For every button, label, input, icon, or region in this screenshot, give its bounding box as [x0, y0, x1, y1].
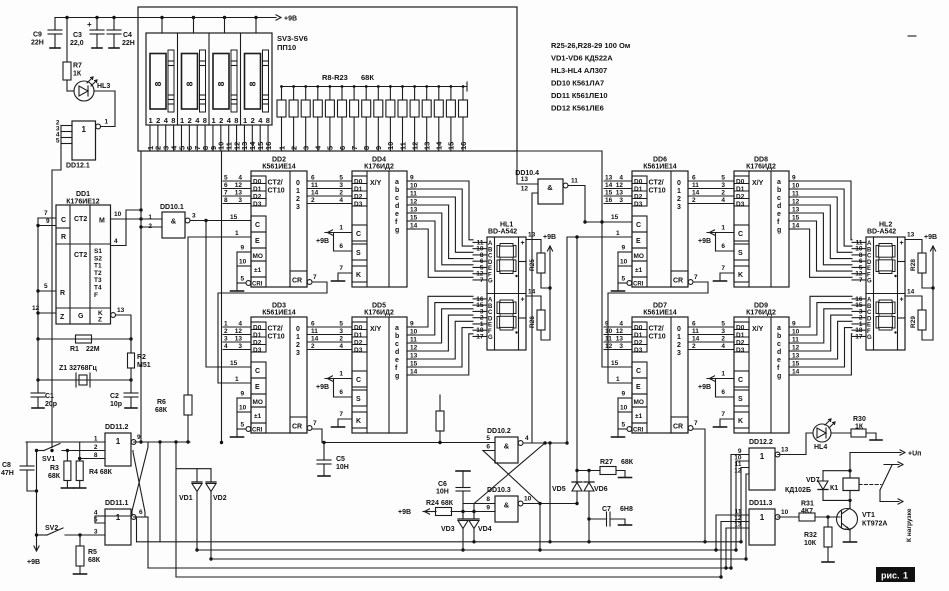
svg-text:HL3-HL4 АЛ307: HL3-HL4 АЛ307: [551, 66, 607, 75]
resistor R3: [66, 449, 69, 452]
svg-text:1: 1: [94, 436, 98, 443]
svg-text:D1: D1: [354, 186, 363, 193]
svg-text:C: C: [738, 377, 743, 384]
svg-text:B: B: [488, 247, 493, 253]
svg-text:11: 11: [692, 182, 699, 189]
svg-text:7: 7: [313, 274, 317, 281]
svg-text:К561ИЕ14: К561ИЕ14: [262, 310, 296, 317]
wire segment bundle: [797, 321, 852, 359]
svg-text:22Н: 22Н: [122, 40, 135, 47]
svg-text:5: 5: [56, 138, 60, 145]
svg-text:22Н: 22Н: [31, 40, 44, 47]
svg-text:0: 0: [677, 326, 681, 333]
resistor R7: [65, 16, 68, 19]
svg-text:VT1: VT1: [862, 512, 875, 519]
wire MO/±1/CRI tie: [236, 252, 238, 291]
diode VD2: [210, 469, 212, 482]
svg-text:R27: R27: [600, 459, 613, 466]
svg-text:CT2: CT2: [74, 216, 87, 223]
svg-text:КТ972А: КТ972А: [862, 521, 887, 528]
svg-text:D0: D0: [634, 179, 643, 186]
resistor R31: [799, 513, 815, 521]
svg-text:13: 13: [605, 175, 613, 182]
svg-text:2: 2: [677, 342, 681, 349]
svg-text:К176ИД2: К176ИД2: [746, 164, 776, 171]
wire latch cross A: [105, 442, 148, 516]
wire DD10.3 output: [523, 503, 577, 505]
wire +9В HL2: [932, 246, 934, 340]
svg-text:C: C: [61, 217, 66, 224]
wire latch cross 2: [483, 451, 540, 504]
svg-text:F: F: [867, 329, 871, 335]
svg-text:68К: 68К: [88, 557, 101, 564]
svg-text:9: 9: [137, 434, 141, 441]
svg-text:22М: 22М: [86, 346, 100, 353]
module box SV3-SV6: [138, 7, 517, 151]
svg-text:К176ИЕ12: К176ИЕ12: [66, 199, 100, 206]
svg-text:рис.: рис.: [881, 571, 900, 581]
svg-text:10: 10: [605, 328, 613, 335]
counter DD6 K561ИЕ14: [632, 171, 688, 287]
wire DD1 pin 4: [111, 210, 142, 246]
svg-text:a: a: [395, 179, 399, 186]
svg-text:1: 1: [677, 334, 681, 341]
diode VD6: [588, 471, 590, 483]
svg-text:8: 8: [216, 81, 226, 86]
svg-text:1: 1: [82, 125, 87, 134]
svg-text:A: A: [488, 298, 493, 304]
gate DD10.4 (&): [538, 179, 563, 204]
svg-text:C8: C8: [2, 462, 11, 469]
svg-text:8: 8: [94, 452, 98, 459]
svg-text:D2: D2: [354, 340, 363, 347]
svg-text:3: 3: [238, 343, 242, 350]
svg-text:3: 3: [296, 204, 300, 211]
svg-text:5: 5: [44, 283, 48, 290]
svg-text:12: 12: [734, 468, 742, 475]
svg-text:G: G: [867, 335, 872, 341]
svg-text:e: e: [777, 357, 781, 364]
wire +Uп supply: [850, 452, 901, 454]
svg-text:68К: 68К: [621, 459, 634, 466]
svg-text:D2: D2: [253, 340, 262, 347]
svg-text:7: 7: [339, 265, 343, 272]
svg-text:C: C: [255, 368, 260, 375]
ground DD4 K: [332, 280, 345, 282]
svg-text:2: 2: [188, 116, 192, 125]
svg-text:CT2: CT2: [74, 252, 87, 259]
svg-text:D1: D1: [634, 332, 643, 339]
svg-text:C: C: [636, 368, 641, 375]
capacitor C7: [589, 518, 607, 520]
svg-text:X/Y: X/Y: [752, 326, 764, 333]
svg-text:c: c: [777, 195, 781, 202]
wire DD6 CR to DD7 E: [608, 282, 708, 383]
svg-text:MO: MO: [634, 253, 644, 260]
svg-text:R8-R23: R8-R23: [322, 73, 348, 82]
svg-text:3: 3: [619, 197, 623, 204]
wire segment bundle: [415, 296, 473, 327]
display HL1 BD-A542: [487, 237, 526, 350]
wire DD6 C pin 15: [585, 221, 632, 223]
resistor R28: [905, 240, 922, 254]
svg-text:d: d: [395, 203, 399, 210]
svg-text:9: 9: [241, 391, 245, 398]
svg-text:2: 2: [224, 328, 228, 335]
resistor R8: [280, 85, 283, 88]
svg-text:C: C: [867, 310, 872, 316]
svg-text:BD-A542: BD-A542: [867, 229, 896, 236]
svg-text:12: 12: [235, 328, 243, 335]
svg-text:9: 9: [241, 245, 245, 252]
svg-text:1: 1: [721, 225, 725, 232]
svg-text:8: 8: [171, 116, 175, 125]
svg-text:9: 9: [46, 218, 50, 225]
svg-text:9: 9: [374, 146, 383, 150]
svg-text:MO: MO: [253, 253, 263, 260]
svg-text:HL2: HL2: [879, 222, 892, 229]
svg-text:11: 11: [605, 336, 612, 343]
svg-text:E: E: [867, 266, 871, 272]
svg-text:C: C: [488, 310, 493, 316]
svg-text:12: 12: [616, 182, 624, 189]
svg-text:9: 9: [792, 175, 796, 182]
wire K ground DD9: [720, 419, 734, 427]
svg-text:+9В: +9В: [698, 238, 711, 245]
svg-text:68К: 68К: [441, 500, 454, 507]
svg-text:b: b: [395, 333, 399, 340]
svg-text:CT10: CT10: [268, 334, 285, 341]
wire DD11.1 output: [134, 516, 148, 518]
svg-text:c: c: [777, 341, 781, 348]
switch relay contact: [880, 465, 892, 490]
svg-text:+9В: +9В: [27, 559, 40, 566]
DD1 left pins 7,9,5,12: [38, 217, 56, 219]
svg-text:3: 3: [302, 146, 311, 150]
svg-text:D0: D0: [253, 325, 262, 332]
wire riser pin10: [736, 461, 749, 550]
svg-text:E: E: [255, 384, 260, 391]
wire S tie DD5: [334, 379, 353, 398]
svg-text:K: K: [356, 418, 361, 425]
wire segment bundle: [415, 205, 473, 259]
svg-text:C: C: [356, 231, 361, 238]
svg-text:22,0: 22,0: [70, 40, 84, 47]
svg-text:+: +: [900, 240, 904, 247]
svg-text:MO: MO: [253, 399, 263, 406]
wire DD1 M output pin 10: [111, 218, 163, 220]
svg-text:9: 9: [622, 245, 626, 252]
svg-text:14: 14: [907, 289, 915, 296]
wire segment bundle: [797, 334, 852, 375]
wire segment bundle: [797, 229, 852, 277]
svg-text:DD11.1: DD11.1: [105, 500, 128, 507]
wire segment bundle: [415, 213, 473, 265]
resistor R26: [540, 296, 542, 310]
svg-text:D0: D0: [736, 325, 745, 332]
svg-text:15: 15: [447, 142, 456, 150]
wire DD11.1 pin5 tie: [95, 516, 105, 523]
resistor R25: [540, 240, 542, 254]
svg-text:1: 1: [339, 371, 343, 378]
diode VD7 КД102Б: [822, 471, 824, 481]
svg-text:1: 1: [760, 513, 765, 522]
svg-text:D1: D1: [253, 186, 262, 193]
ground DD5 K: [332, 426, 345, 428]
svg-text:4: 4: [238, 175, 242, 182]
svg-text:14: 14: [692, 190, 700, 197]
svg-text:10: 10: [620, 259, 628, 266]
wire VT1 collector: [849, 500, 851, 508]
svg-text:1: 1: [296, 334, 300, 341]
wire bus corner to DD6/DD7 C: [602, 151, 632, 367]
svg-text:DD1: DD1: [76, 191, 90, 198]
svg-text:1: 1: [903, 571, 908, 581]
wire C pin +9В supply DD8: [707, 232, 734, 234]
wire S tie DD4: [334, 233, 353, 252]
wire latch cross B: [133, 451, 145, 518]
wire MO/±1/CRI tie: [617, 252, 619, 291]
svg-text:E: E: [636, 384, 641, 391]
resistor R5: [79, 535, 81, 546]
svg-text:2: 2: [311, 197, 315, 204]
svg-text:10: 10: [781, 509, 789, 516]
svg-text:&: &: [547, 183, 553, 192]
svg-text:1: 1: [243, 116, 247, 125]
wire DD11.2 pin8: [80, 458, 105, 460]
wire DD10.4 output pin 11: [568, 186, 585, 223]
svg-text:DD6: DD6: [653, 157, 667, 164]
counter DD3 K561ИЕ14: [251, 317, 307, 433]
svg-text:3: 3: [619, 343, 623, 350]
svg-text:CT2/: CT2/: [268, 180, 283, 187]
wire segment bundle: [797, 181, 852, 240]
svg-text:R29: R29: [910, 316, 917, 328]
svg-text:MO: MO: [634, 399, 644, 406]
wire segment bundle: [797, 221, 852, 271]
svg-text:D3: D3: [354, 201, 363, 208]
wire segment bundle: [797, 213, 852, 265]
svg-text:&: &: [504, 501, 510, 510]
svg-text:8: 8: [486, 496, 490, 503]
wire DD10.4 pin 12 riser: [532, 193, 538, 443]
stray dash mark: [908, 35, 916, 37]
wire DD11.3 output: [778, 516, 799, 518]
svg-text:2: 2: [251, 116, 255, 125]
svg-text:C: C: [255, 222, 260, 229]
svg-text:6: 6: [139, 509, 143, 516]
svg-text:±1: ±1: [635, 267, 643, 274]
svg-text:D1: D1: [354, 332, 363, 339]
svg-text:S2: S2: [94, 255, 102, 262]
svg-text:7: 7: [350, 146, 359, 150]
svg-text:g: g: [777, 227, 781, 234]
svg-text:DD5: DD5: [372, 303, 386, 310]
svg-text:4: 4: [224, 343, 228, 350]
svg-text:D: D: [867, 260, 872, 266]
svg-text:6Н8: 6Н8: [620, 506, 633, 513]
svg-text:DD10 К561ЛА7: DD10 К561ЛА7: [551, 79, 604, 88]
svg-text:±1: ±1: [635, 413, 643, 420]
switch output wires 1-16: [149, 125, 151, 151]
wire segment bundle: [797, 197, 852, 252]
ground DD8 K: [714, 280, 727, 282]
svg-text:47Н: 47Н: [1, 470, 14, 477]
svg-text:VD1-VD6 КД522А: VD1-VD6 КД522А: [551, 54, 613, 63]
svg-text:7: 7: [694, 420, 698, 427]
svg-text:Z: Z: [98, 317, 102, 324]
svg-text:M: M: [99, 218, 105, 225]
resistor R24: [423, 511, 436, 513]
svg-text:15: 15: [230, 360, 238, 367]
svg-text:S: S: [356, 396, 361, 403]
svg-text:1: 1: [105, 119, 109, 126]
svg-text:DD11 К561ЛЕ10: DD11 К561ЛЕ10: [551, 91, 608, 100]
wire HL3 to DD12.1 output: [101, 91, 115, 127]
svg-text:c: c: [395, 341, 399, 348]
wire riser pin9: [731, 455, 749, 569]
wire DD3 CR to DD10.2: [312, 429, 495, 443]
wire DD10.3 pin8: [463, 503, 495, 505]
svg-text:C: C: [636, 222, 641, 229]
svg-text:R28: R28: [910, 259, 917, 271]
wire DD11.2 pin1: [26, 441, 105, 443]
svg-text:R25-26,R28-29 100 Ом: R25-26,R28-29 100 Ом: [551, 41, 631, 50]
svg-text:13: 13: [521, 176, 529, 183]
svg-text:К561ИЕ14: К561ИЕ14: [643, 164, 677, 171]
svg-text:5: 5: [622, 422, 626, 429]
resistor R20: [425, 85, 428, 88]
svg-text:DD9: DD9: [754, 303, 768, 310]
svg-text:7: 7: [313, 420, 317, 427]
resistor R1 22М: [38, 338, 131, 340]
svg-text:g: g: [395, 373, 399, 380]
resistor R4: [79, 442, 81, 461]
svg-text:8: 8: [248, 81, 258, 86]
wire segment bundle: [415, 321, 473, 359]
svg-text:6: 6: [339, 389, 343, 396]
wire DD2 CR to DD3 E: [218, 282, 327, 383]
svg-text:A: A: [867, 241, 872, 247]
wire out9 riser: [158, 440, 161, 443]
svg-text:8: 8: [185, 81, 195, 86]
svg-text:2: 2: [219, 116, 223, 125]
svg-text:F: F: [488, 329, 492, 335]
switch SV5 body: [213, 54, 229, 110]
svg-text:R31: R31: [801, 501, 814, 508]
svg-text:13: 13: [235, 190, 243, 197]
svg-text:X/Y: X/Y: [370, 180, 382, 187]
svg-text:HL4: HL4: [814, 444, 827, 451]
gate DD11.2: [105, 433, 131, 466]
resistor R10: [304, 85, 307, 88]
svg-text:2: 2: [677, 196, 681, 203]
svg-text:1: 1: [212, 116, 216, 125]
svg-text:13: 13: [117, 307, 125, 314]
svg-text:+9В: +9В: [284, 16, 297, 23]
wire DD2 E pull (R6): [188, 237, 251, 395]
svg-text:2: 2: [692, 197, 696, 204]
svg-text:1: 1: [148, 214, 152, 221]
svg-text:DD10.2: DD10.2: [487, 428, 511, 435]
svg-text:CRI: CRI: [252, 282, 263, 288]
svg-text:2: 2: [311, 343, 315, 350]
svg-text:7: 7: [224, 190, 228, 197]
svg-text:14: 14: [311, 336, 319, 343]
switch SV6 body: [245, 54, 261, 110]
svg-text:1: 1: [721, 371, 725, 378]
svg-text:1: 1: [116, 437, 121, 446]
svg-text:0: 0: [296, 326, 300, 333]
svg-text:5: 5: [326, 146, 335, 150]
svg-text:a: a: [777, 325, 781, 332]
svg-text:D0: D0: [354, 179, 363, 186]
svg-text:3: 3: [224, 336, 228, 343]
svg-text:D3: D3: [634, 347, 643, 354]
wire rail to switch: [223, 16, 226, 19]
svg-text:K: K: [738, 418, 743, 425]
svg-text:HL3: HL3: [97, 83, 110, 90]
svg-text:d: d: [395, 349, 399, 356]
capacitor C8: [26, 442, 28, 466]
svg-text:11: 11: [571, 178, 578, 185]
svg-text:±1: ±1: [254, 413, 262, 420]
svg-text:3: 3: [192, 213, 196, 220]
svg-text:15: 15: [611, 360, 619, 367]
svg-text:7: 7: [480, 277, 484, 284]
svg-text:S: S: [738, 250, 743, 257]
svg-text:K: K: [356, 272, 361, 279]
svg-text:g: g: [777, 373, 781, 380]
svg-text:С4: С4: [123, 32, 132, 39]
svg-text:+9В: +9В: [698, 384, 711, 391]
svg-text:3: 3: [677, 350, 681, 357]
svg-text:R: R: [60, 290, 65, 297]
svg-text:4: 4: [238, 321, 242, 328]
decoder DD8 К176ИД2: [734, 171, 789, 287]
wire S tie DD9: [716, 379, 735, 398]
wire C pin +9В supply DD9: [707, 378, 734, 380]
svg-text:E: E: [867, 323, 871, 329]
resistor R30: [831, 432, 851, 434]
svg-text:VD5: VD5: [552, 486, 566, 493]
wire segment bundle: [415, 229, 473, 277]
gate DD10.3 (&): [495, 496, 518, 522]
svg-text:4: 4: [619, 321, 623, 328]
svg-text:6: 6: [311, 175, 315, 182]
svg-text:16: 16: [264, 142, 273, 150]
svg-text:+9В: +9В: [924, 234, 937, 241]
wire SV2 to DD11.1 pin3: [65, 534, 105, 536]
wire VT1 emitter ground: [849, 530, 851, 542]
transistor VT1 КТ972А: [837, 509, 858, 530]
svg-text:5: 5: [224, 175, 228, 182]
svg-text:CRI: CRI: [252, 428, 263, 434]
svg-text:DD10.4: DD10.4: [515, 170, 539, 177]
svg-text:К176ИД2: К176ИД2: [364, 310, 394, 317]
svg-text:12: 12: [605, 343, 613, 350]
svg-text:6: 6: [486, 444, 490, 451]
resistor R19: [413, 85, 416, 88]
svg-text:7: 7: [859, 277, 863, 284]
wire R27 node: [577, 470, 600, 472]
svg-text:+Uп: +Uп: [908, 451, 921, 458]
svg-text:SV1: SV1: [42, 456, 55, 463]
svg-text:C: C: [738, 231, 743, 238]
svg-text:К561ИЕ14: К561ИЕ14: [262, 164, 296, 171]
svg-text:d: d: [777, 349, 781, 356]
gate DD11.1: [105, 509, 131, 545]
